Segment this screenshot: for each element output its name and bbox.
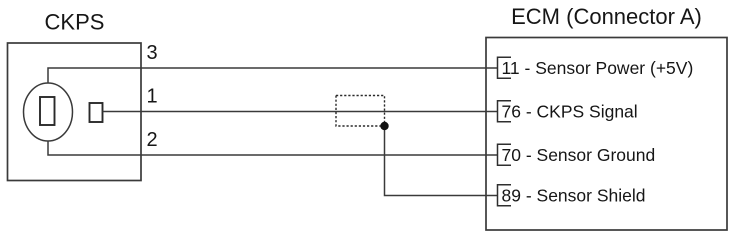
svg-text:CKPS: CKPS	[45, 10, 105, 35]
svg-text:76 - CKPS Signal: 76 - CKPS Signal	[502, 102, 638, 122]
svg-text:3: 3	[147, 42, 158, 64]
svg-text:70 - Sensor Ground: 70 - Sensor Ground	[502, 145, 656, 165]
svg-text:ECM (Connector A): ECM (Connector A)	[511, 4, 702, 29]
svg-text:1: 1	[147, 86, 158, 108]
svg-text:2: 2	[147, 129, 158, 151]
svg-text:89 - Sensor Shield: 89 - Sensor Shield	[502, 186, 646, 206]
svg-text:11 - Sensor Power (+5V): 11 - Sensor Power (+5V)	[502, 58, 694, 78]
